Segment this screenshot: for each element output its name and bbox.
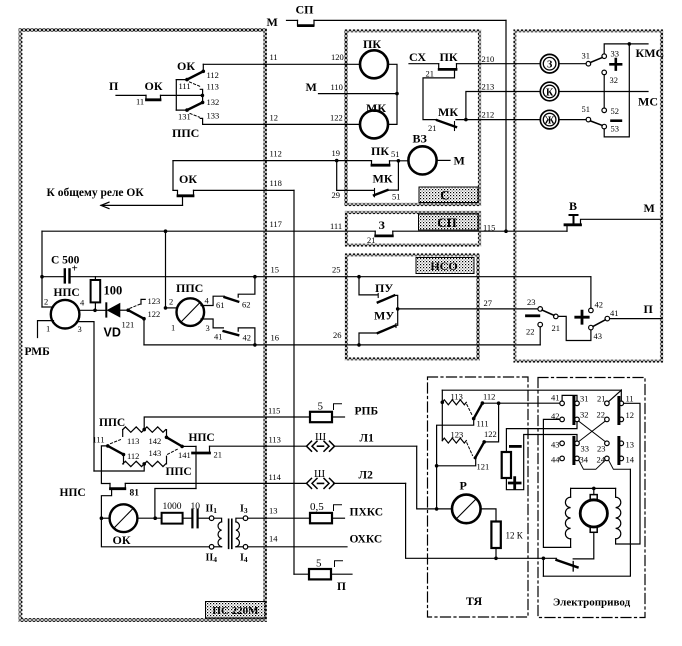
svg-text:15: 15 — [271, 265, 280, 275]
svg-text:27: 27 — [484, 298, 493, 308]
junction resistor/diode node — [93, 309, 97, 313]
node М (top feed) — [0, 0, 1, 1]
box С (ПК/МК/ВЗ relay box) border — [346, 31, 480, 205]
terminal 23п — [538, 307, 543, 312]
fuse 5 (РПБ) — [310, 412, 332, 422]
svg-text:132: 132 — [207, 97, 220, 107]
contact arm 123-121 dashed — [467, 443, 473, 456]
wire Л1 down into ТЯ to ammeter Р — [417, 446, 452, 509]
transformer terminal I4 — [243, 545, 248, 550]
lamp Ж — [540, 110, 559, 129]
wire ТЯ left stub down — [441, 390, 443, 440]
svg-text:16: 16 — [271, 333, 280, 343]
svg-text:Л2: Л2 — [359, 470, 374, 482]
connector bar 33-34 — [572, 438, 575, 464]
fuse 0,5 — [310, 513, 332, 523]
relay НПС coil — [51, 300, 80, 329]
node 113/132 tie — [201, 94, 205, 98]
wire 16/26 row — [144, 344, 540, 346]
contact НПС arm 141-143 dashed — [168, 449, 179, 455]
svg-text:13: 13 — [269, 506, 278, 516]
fuse 5 (П) — [309, 569, 331, 579]
motor cutout contact blade — [557, 560, 578, 567]
svg-text:12: 12 — [270, 113, 279, 123]
svg-text:1: 1 — [46, 324, 50, 334]
contact arm ОК 111-113 (open, dashed) — [190, 82, 201, 87]
svg-text:23: 23 — [597, 444, 606, 454]
wire ПК/МК right tie — [388, 64, 397, 124]
svg-text:61: 61 — [216, 300, 225, 310]
svg-text:100: 100 — [104, 284, 123, 298]
svg-text:81: 81 — [130, 489, 140, 499]
terminal 24э — [605, 456, 610, 461]
wire to ВЗ — [390, 160, 409, 162]
svg-text:2: 2 — [44, 297, 48, 307]
wire 212 to lamp Ж — [456, 119, 540, 121]
transformer primary winding — [214, 518, 222, 522]
wire 13 row (ПХКС) — [248, 517, 310, 519]
svg-text:К общему реле ОК: К общему реле ОК — [47, 187, 145, 199]
box СП border — [347, 213, 480, 246]
terminal 41э — [560, 401, 565, 406]
wire СП contact to М vertical — [314, 19, 506, 21]
contact arm 31-33 — [590, 58, 602, 63]
arrester Ш (Л2) — [307, 478, 335, 488]
contact arm 121-122 (closed) — [128, 310, 144, 319]
svg-text:М: М — [454, 154, 465, 168]
terminal 133 hook — [200, 118, 202, 124]
wire hang from ОК contact to arrow — [182, 197, 184, 205]
shaded label box С — [419, 187, 478, 203]
svg-text:31: 31 — [582, 51, 591, 61]
lamp К — [540, 82, 559, 101]
svg-text:122: 122 — [148, 309, 161, 319]
wire 210 to lamp З — [457, 63, 541, 65]
fuse mark П — [335, 561, 343, 567]
terminal 41п — [605, 316, 610, 321]
contact НПС-21 (front) with hang-down — [195, 446, 197, 488]
svg-text:МК: МК — [438, 105, 458, 119]
svg-text:43: 43 — [551, 440, 560, 450]
svg-text:Л1: Л1 — [360, 433, 375, 445]
svg-text:42: 42 — [243, 333, 252, 343]
svg-text:ПС 220М: ПС 220М — [212, 605, 259, 617]
contact arm 51-53 — [590, 121, 602, 126]
fuse mark РПБ — [334, 404, 342, 410]
contact arm 113-111 dashed — [467, 405, 473, 417]
wire 118 out of contact ОК — [194, 189, 295, 191]
svg-text:41: 41 — [610, 308, 619, 318]
symbol + (КМС) — [611, 59, 622, 70]
svg-text:СХ: СХ — [409, 50, 426, 64]
svg-text:ППС: ППС — [176, 281, 203, 295]
svg-text:МК: МК — [366, 101, 386, 115]
svg-text:+: + — [72, 263, 78, 275]
contact arm ОК 111-112 (closed) — [187, 71, 203, 79]
wire 21п loop to 43п — [558, 316, 591, 340]
svg-text:ПУ: ПУ — [375, 281, 393, 295]
symbol − (left) — [527, 314, 539, 317]
terminal 34э — [575, 456, 580, 461]
terminal 42э — [560, 417, 565, 422]
svg-text:ОК: ОК — [145, 79, 163, 93]
terminal 143 stub — [166, 456, 168, 464]
svg-text:ОК: ОК — [177, 59, 195, 73]
svg-text:12 К: 12 К — [506, 531, 524, 541]
svg-text:113: 113 — [127, 436, 139, 446]
connector bar 11-12 — [617, 398, 620, 424]
resistor 100 — [94, 277, 96, 280]
svg-text:11: 11 — [626, 394, 634, 404]
svg-text:2: 2 — [169, 297, 173, 307]
svg-text:ТЯ: ТЯ — [466, 594, 483, 608]
terminal 12э — [619, 417, 624, 422]
svg-text:14: 14 — [626, 455, 635, 465]
svg-text:21: 21 — [597, 394, 606, 404]
svg-text:I4: I4 — [240, 553, 248, 565]
junction 12К bottom — [494, 557, 498, 561]
wire НПС terminal 4 to node — [79, 309, 107, 311]
lamp З — [540, 54, 559, 73]
wire НПС terminal 3 down — [77, 322, 95, 471]
contact arm ППС 131-132 (closed) — [187, 102, 203, 110]
svg-text:НПС: НПС — [189, 432, 215, 444]
svg-text:1000: 1000 — [163, 502, 182, 512]
wire 41п to П — [610, 318, 662, 320]
svg-text:24: 24 — [597, 455, 606, 465]
svg-text:МС: МС — [638, 95, 658, 109]
terminal 14э — [619, 456, 624, 461]
contact group ОК/ППС common bar — [175, 80, 177, 111]
wire 113 (Л1) row — [210, 445, 307, 447]
svg-text:22: 22 — [526, 327, 535, 337]
svg-text:НСО: НСО — [430, 259, 457, 273]
junction Р feed — [435, 507, 439, 511]
svg-text:115: 115 — [268, 406, 280, 416]
resistor 113т (zigzag) — [442, 400, 466, 405]
svg-text:МК: МК — [373, 172, 393, 186]
wire СХ to contact ПК-21 — [409, 63, 439, 65]
button В (push button) — [566, 225, 568, 231]
svg-text:21: 21 — [426, 69, 435, 79]
wire split down to 29 row — [336, 161, 338, 191]
svg-text:51: 51 — [582, 104, 591, 114]
svg-text:26: 26 — [333, 330, 342, 340]
box ТЯ border — [428, 377, 529, 617]
wire 114 (Л2) row — [125, 482, 307, 484]
wire from 21-bar down to ОК right node — [155, 489, 196, 519]
svg-text:123: 123 — [451, 430, 464, 440]
terminal 112 stub to bottom resistor — [123, 455, 125, 464]
contact ОК 11 (front contact) — [146, 95, 161, 99]
wire contact ОК-11 to common bar — [161, 94, 203, 96]
wire П to contact ОК-11 — [116, 94, 146, 96]
svg-text:120: 120 — [331, 52, 344, 62]
svg-text:113: 113 — [207, 82, 219, 92]
contact МУ (НСО box) — [397, 309, 399, 325]
svg-text:112: 112 — [207, 70, 219, 80]
svg-text:ОК: ОК — [179, 172, 197, 186]
svg-text:М: М — [267, 15, 278, 29]
box ПС-220М border — [21, 30, 266, 620]
junction wire 27 — [396, 307, 400, 311]
svg-text:С: С — [440, 188, 449, 203]
terminal 11э — [619, 401, 624, 406]
svg-text:3: 3 — [206, 323, 210, 333]
svg-text:23: 23 — [527, 297, 536, 307]
wire 12/122 to relay МК — [203, 123, 360, 125]
jumper 24 to bottom loop — [609, 460, 631, 469]
svg-text:110: 110 — [331, 82, 343, 92]
svg-text:112: 112 — [483, 392, 495, 402]
resistor 123т (zigzag) — [442, 438, 466, 443]
box НСО border — [347, 255, 479, 359]
jumper 34-24 (V) — [579, 460, 606, 469]
relay ОК coil — [110, 504, 138, 532]
wire 27 row — [398, 308, 538, 310]
transformer secondary winding — [236, 518, 243, 522]
svg-text:К: К — [546, 87, 554, 98]
svg-text:КМС: КМС — [636, 46, 665, 60]
wire 15 row left part — [42, 276, 64, 278]
svg-text:42: 42 — [551, 411, 560, 421]
wire 33 up to КМС(+) rail — [604, 44, 648, 54]
crossover 32-23 — [579, 421, 606, 442]
contact arm 43-41 — [593, 320, 605, 327]
wire НПС terminal 2 — [42, 306, 54, 308]
terminal 44э — [560, 456, 565, 461]
shaded label box НСО — [416, 258, 474, 274]
wire cutout node down — [542, 558, 544, 576]
wire М 110 row — [319, 93, 398, 95]
ammeter Р — [452, 495, 481, 524]
terminal 113 hook — [200, 89, 202, 95]
svg-text:12: 12 — [626, 410, 635, 420]
box КМС/МС (right control box) border — [515, 31, 662, 361]
svg-text:52: 52 — [611, 106, 620, 116]
svg-text:33: 33 — [611, 49, 620, 59]
contact НПС-81 (front) — [110, 484, 125, 489]
contact ПУ (НСО box) — [359, 277, 378, 295]
wire bottom loop — [543, 469, 630, 576]
connector bar 31-32 — [572, 398, 575, 424]
terminal 33 — [602, 54, 607, 59]
svg-text:21: 21 — [367, 235, 376, 245]
jumper 41-31 — [562, 395, 577, 401]
svg-text:5: 5 — [318, 401, 324, 413]
terminal 51 — [586, 117, 591, 122]
svg-text:ППС: ППС — [166, 466, 192, 478]
crossover 33-22 — [579, 421, 606, 442]
svg-text:НПС: НПС — [54, 287, 80, 299]
junction КМС rail — [628, 42, 632, 46]
connector bar 13-14 — [617, 438, 620, 464]
contact arm ППС 131-133 (open, dashed) — [190, 114, 200, 118]
svg-text:112: 112 — [270, 149, 282, 159]
svg-text:111: 111 — [330, 221, 342, 231]
contact З-21 (in СП box) — [375, 231, 393, 236]
svg-text:22: 22 — [597, 410, 606, 420]
svg-text:11: 11 — [270, 52, 278, 62]
contact ППС arm 111 dashed — [111, 440, 121, 444]
svg-text:113: 113 — [269, 435, 281, 445]
wire 112т to terminal 41 — [482, 402, 559, 404]
box Электропривод border — [538, 378, 645, 618]
wire 29 to contact МК-51 — [337, 189, 374, 191]
contact ОК (to common ОК relay) — [173, 190, 194, 195]
svg-text:212: 212 — [482, 110, 495, 120]
terminal 42 hook and wire down to 16 row — [238, 328, 255, 345]
battery + symbol — [509, 478, 520, 489]
svg-text:213: 213 — [482, 82, 495, 92]
ОК coil slash — [115, 509, 133, 528]
svg-text:113: 113 — [451, 392, 463, 402]
svg-text:Р: Р — [460, 479, 467, 493]
svg-text:ППС: ППС — [172, 126, 199, 140]
svg-text:П: П — [644, 302, 654, 316]
wire Р to 12К — [481, 509, 496, 522]
wire battery − to terminal 32э — [506, 422, 577, 452]
wire 22п down to 26 row — [539, 327, 541, 345]
wire К lamp to МС — [559, 91, 648, 93]
node common 121 — [126, 308, 130, 312]
svg-text:14: 14 — [269, 534, 278, 544]
svg-text:121: 121 — [122, 320, 135, 330]
svg-text:ОХКС: ОХКС — [350, 534, 383, 546]
svg-text:ПК: ПК — [440, 50, 458, 64]
shaded label box СП — [419, 214, 479, 230]
wire 14 row (ОХКС) — [248, 546, 347, 548]
terminal 31 — [586, 61, 591, 66]
transformer terminal II1 — [209, 516, 214, 521]
contact blade 41-42 — [224, 331, 239, 335]
wire 111 to left drop — [437, 419, 474, 509]
battery − bar — [510, 445, 520, 448]
svg-text:111: 111 — [477, 419, 489, 429]
junction 41 wire / 122 drop — [497, 401, 501, 405]
svg-text:10: 10 — [191, 502, 201, 512]
junction 212/213 — [464, 118, 468, 122]
svg-text:133: 133 — [207, 111, 220, 121]
svg-text:29: 29 — [332, 190, 341, 200]
svg-text:II4: II4 — [206, 553, 218, 565]
svg-text:19: 19 — [332, 148, 341, 158]
junction 121 row — [435, 464, 439, 468]
resistor 112-143 (bottom zigzag) — [123, 461, 166, 466]
contact arm 122-121 (closed blade) — [475, 442, 484, 458]
wire 122 down to 16 row — [143, 319, 145, 345]
wire 111 bracket down to contact НПС-81 — [101, 446, 110, 484]
svg-text:Ш: Ш — [315, 431, 326, 443]
svg-text:0,5: 0,5 — [310, 501, 324, 513]
transformer terminal II4 — [209, 545, 214, 550]
svg-text:РМБ: РМБ — [25, 346, 51, 358]
wire motor top node — [593, 488, 595, 494]
terminal 13э — [619, 441, 624, 446]
arrester Ш (Л1) — [307, 441, 335, 451]
svg-text:ППС: ППС — [99, 417, 125, 429]
jumper 21-11 — [609, 390, 622, 402]
terminal 22э — [605, 417, 610, 422]
junction М line / В row — [504, 229, 508, 233]
wire ПК-21 down to МК-21 — [423, 71, 455, 120]
terminal 21э — [605, 401, 610, 406]
svg-text:II1: II1 — [206, 504, 218, 516]
svg-text:117: 117 — [270, 219, 282, 229]
svg-text:М: М — [644, 201, 655, 215]
arrow К общему реле ОК — [101, 204, 183, 206]
svg-text:42: 42 — [595, 300, 604, 310]
wire left vertical x=42 (117 to НПС-2) — [41, 231, 43, 307]
terminal 53 — [602, 124, 607, 129]
terminal 123 hook — [141, 299, 145, 304]
svg-text:П: П — [109, 79, 119, 93]
terminal 113 stub — [122, 430, 124, 437]
svg-text:РПБ: РПБ — [355, 406, 379, 418]
wire М to СП contact — [287, 19, 298, 21]
relay МК coil — [360, 110, 388, 138]
wire 112 row from relay box to contact ОК — [173, 160, 372, 162]
contact ППС arm 111-112 (closed) — [108, 446, 124, 455]
svg-text:ПК: ПК — [371, 144, 389, 158]
terminal 43п — [589, 325, 594, 330]
svg-text:11: 11 — [136, 97, 144, 107]
wire 213 to lamp К — [466, 92, 540, 120]
contact arm 112-111 (closed blade) — [474, 403, 483, 419]
terminal 121 foot — [437, 458, 476, 466]
wire 118/П vertical (x=294) — [293, 190, 295, 574]
junction 110/tie — [395, 92, 399, 96]
transformer terminal I3 — [243, 516, 248, 521]
wire 11/120 to relay ПК — [203, 63, 360, 65]
node common 111 — [185, 78, 189, 82]
svg-text:З: З — [379, 218, 385, 232]
junction ВЗ feed — [397, 159, 401, 163]
svg-text:44: 44 — [551, 455, 560, 465]
svg-text:32: 32 — [610, 75, 619, 85]
wire battery + to terminal 33э — [506, 435, 577, 490]
wire down to contact ОК (общий) — [172, 161, 174, 191]
wire down to ППС coil terminal 2 — [165, 231, 167, 308]
contact СП (front contact of СП relay) — [298, 20, 315, 25]
wire П fuse row — [294, 573, 309, 575]
wire 113/132 tie down to 132 — [202, 95, 204, 102]
wire 42э to motor field (left) — [543, 419, 570, 547]
terminal 62 hook and wire up to 15 row — [238, 277, 255, 298]
svg-text:21: 21 — [552, 323, 561, 333]
svg-text:210: 210 — [482, 54, 495, 64]
junction 19/29 split — [335, 159, 339, 163]
svg-text:118: 118 — [270, 178, 282, 188]
contact НПС arm 142-141 (closed) — [167, 437, 183, 446]
junction 25 row / ПУ branch — [357, 275, 361, 279]
wire ТЯ top row to привод — [442, 389, 621, 391]
hook from 81 bar down to ОК node — [101, 490, 111, 518]
terminal 42п — [589, 308, 594, 313]
svg-text:СП: СП — [296, 3, 315, 17]
svg-text:122: 122 — [484, 429, 497, 439]
svg-text:З: З — [547, 60, 552, 71]
svg-text:ВЗ: ВЗ — [413, 132, 427, 146]
svg-text:ПХКС: ПХКС — [350, 507, 384, 519]
svg-text:51: 51 — [392, 192, 401, 202]
node ОК right — [153, 516, 157, 520]
svg-text:34: 34 — [580, 455, 589, 465]
svg-text:122: 122 — [330, 113, 343, 123]
capacitor С 500 — [64, 269, 66, 282]
svg-text:111: 111 — [93, 435, 105, 445]
wire Ж lamp to contact 51 — [559, 119, 586, 121]
